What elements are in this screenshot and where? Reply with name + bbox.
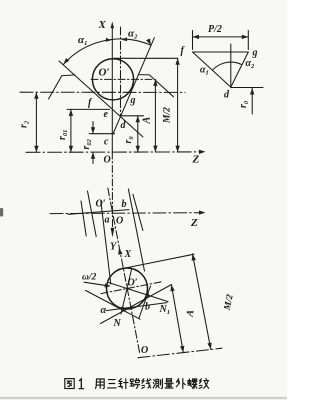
svg-text:g: g (130, 95, 136, 106)
e level line (67, 108, 110, 110)
svg-text:O: O (116, 216, 123, 227)
break mark right (133, 194, 143, 230)
scan mark left edge 2 (0, 208, 3, 217)
svg-text:N: N (113, 318, 122, 329)
svg-text:X: X (98, 19, 107, 31)
right tooth crest outline (138, 75, 173, 97)
perpendicular centerline through O' (dash-dot) (101, 282, 161, 294)
left tooth crest outline (49, 75, 75, 99)
caption char tu (图) (65, 379, 74, 389)
svg-text:Z: Z (192, 154, 200, 166)
flank angle arc (alpha1 + alpha2) (63, 37, 150, 64)
inset vertical through d (230, 44, 232, 87)
caption char yong (用) (96, 379, 105, 389)
tangent line at wire top (M/2 reference) (118, 254, 194, 269)
svg-text:r02: r02 (81, 138, 93, 149)
inset crest line f-g (193, 51, 249, 53)
contact point N (121, 307, 125, 311)
radius line O'-b extended (108, 282, 168, 301)
wire top tangent line (114, 57, 178, 59)
wire left edge (middle) (88, 191, 97, 237)
caption char luo (螺) (188, 379, 197, 389)
svg-text:O: O (104, 155, 111, 166)
caption char 1 (79, 379, 83, 389)
svg-text:O′: O′ (99, 67, 110, 79)
svg-text:g: g (252, 48, 258, 59)
svg-text:a: a (105, 215, 110, 226)
pitch line (dash-dot at r2 level) (20, 91, 185, 93)
Y axis continuation down to middle diagram with arrow (111, 152, 115, 238)
svg-text:M/2: M/2 (162, 107, 172, 124)
dimension M/2 (upper diagram) (175, 58, 179, 152)
groove centerline (dash-dot vertical through vertex d) (120, 27, 122, 116)
svg-text:e: e (104, 109, 109, 120)
right flank (normal section) (139, 286, 151, 319)
c level line (90, 133, 115, 135)
dimension A (lower, slanted) (170, 285, 184, 353)
svg-text:r01: r01 (57, 130, 69, 140)
svg-text:O′: O′ (96, 199, 106, 210)
svg-text:M/2: M/2 (223, 293, 236, 312)
svg-text:Y: Y (110, 242, 117, 253)
svg-text:c: c (104, 137, 109, 148)
svg-text:Z: Z (190, 217, 198, 229)
inset right flank g-d (231, 52, 249, 87)
caption char xian (线) (142, 379, 151, 389)
caption char wai (外) (176, 379, 185, 389)
svg-text:α2: α2 (128, 28, 138, 41)
contact line N-b extended (A reference) (101, 285, 172, 324)
svg-text:O′: O′ (128, 278, 138, 289)
inset r0 dimension (250, 88, 254, 114)
scan shadow at bottom edge (0, 397, 287, 399)
dimension r2 (34, 92, 38, 152)
d level line (121, 115, 144, 117)
svg-text:A: A (184, 309, 196, 319)
svg-text:P/2: P/2 (208, 24, 222, 35)
wire circle (upper diagram) (92, 59, 133, 100)
caption char ce (测) (153, 379, 162, 389)
dimension r01 (69, 109, 73, 152)
dimension r0 (upper diagram) (136, 116, 140, 152)
caption char liang (量) (165, 379, 174, 388)
svg-text:O: O (141, 345, 148, 356)
right flank line (through g, d, c) (113, 38, 154, 134)
svg-text:α: α (101, 305, 107, 316)
svg-text:f: f (88, 98, 93, 109)
svg-text:r2: r2 (19, 120, 31, 128)
axis line at bottom (dash-dot) (138, 348, 222, 358)
radius line N-O' extended (121, 269, 132, 314)
svg-text:r0: r0 (123, 136, 135, 144)
svg-text:b: b (145, 302, 150, 313)
svg-text:α2: α2 (246, 58, 256, 70)
contact point b (145, 293, 149, 297)
caption char zhen (针) (119, 379, 128, 389)
dimension A (upper diagram) (153, 79, 157, 152)
inset d-level line (231, 87, 263, 89)
svg-text:ω/2: ω/2 (82, 273, 97, 283)
svg-text:α1: α1 (78, 34, 87, 47)
wire circle (lower) (107, 268, 148, 309)
X axis arrow of normal section (118, 248, 122, 255)
wire right edge (128, 189, 144, 271)
break mark left (81, 201, 86, 236)
X axis (upper diagram, vertical through O) (111, 22, 115, 153)
wire centerline through O' (dash-dot) (91, 78, 152, 80)
inset angle arc (212, 62, 242, 70)
projection ray to lower section (101, 201, 111, 284)
left flank (normal section) (86, 290, 141, 319)
Z axis (upper diagram) (26, 150, 206, 154)
svg-text:X: X (124, 249, 132, 260)
line N-N1 (106, 303, 167, 311)
svg-text:N1: N1 (159, 304, 170, 316)
left flank line (through f, e) (59, 61, 143, 137)
caption char san (三) (108, 380, 117, 388)
svg-text:b: b (122, 199, 127, 210)
inset left flank f-d (193, 52, 231, 87)
svg-text:r0: r0 (238, 100, 250, 108)
Z axis (middle diagram) (50, 210, 206, 214)
contact line a-b (middle) (68, 210, 129, 215)
caption char wen (纹) (199, 379, 208, 389)
dimension M/2 (lower, slanted) (192, 254, 212, 350)
omega/2 reference line with arrow (84, 282, 111, 287)
svg-text:f: f (181, 46, 186, 57)
svg-text:d: d (224, 90, 230, 101)
inset extension lines (192, 31, 194, 50)
P/2 dimension (193, 35, 249, 39)
wire axis dash-dot (slanted) (108, 188, 140, 353)
dimension r02 (outside arrows) (91, 122, 95, 164)
caption char kua (跨) (130, 379, 140, 389)
svg-text:A: A (142, 117, 153, 125)
